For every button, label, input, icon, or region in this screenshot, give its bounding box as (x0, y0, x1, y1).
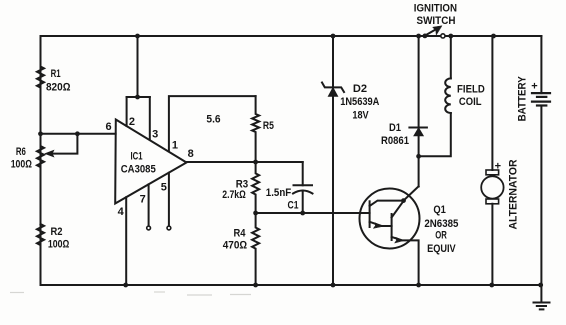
svg-text:100Ω: 100Ω (48, 239, 70, 251)
svg-text:7: 7 (140, 194, 146, 206)
node dot pin4 bottom rail (123, 283, 128, 288)
transistor Q1 emitter b arrowhead (395, 237, 404, 243)
resistor R2 (37, 224, 44, 285)
svg-text:+: + (495, 161, 501, 173)
svg-text:Q1: Q1 (433, 204, 446, 216)
ignition switch pole dot (423, 34, 428, 39)
svg-text:5: 5 (161, 182, 167, 194)
svg-text:1.5nF: 1.5nF (266, 187, 292, 199)
op-amp pin 4 wire (125, 197, 127, 285)
ignition switch lever (425, 29, 436, 35)
svg-text:1: 1 (172, 140, 178, 152)
wire pin 2 (126, 97, 128, 126)
node dot D2 bottom rail (331, 283, 336, 288)
node dot alternator bottom rail (489, 283, 494, 288)
svg-text:R6: R6 (16, 146, 26, 158)
svg-text:D1: D1 (389, 122, 401, 134)
node dot junction left rail R6 (38, 131, 43, 136)
alternator lead top (491, 36, 493, 170)
transistor Q1 collector b (392, 201, 404, 218)
node dot top rail riser (135, 34, 140, 39)
zener D2 cathode bar with hooks (322, 83, 344, 93)
wire output pin 8 (187, 161, 303, 163)
R6 wiper arm (52, 134, 77, 154)
node dot D1 top rail (416, 34, 421, 39)
svg-text:COIL: COIL (459, 96, 482, 108)
wire pin 6 input (41, 133, 116, 135)
battery plate short (537, 96, 546, 98)
node dot R3 R4 junction (253, 211, 258, 216)
node dot R4 bottom rail (253, 283, 258, 288)
transistor Q1 collector a (370, 201, 404, 206)
svg-text:2: 2 (129, 116, 135, 128)
wire pin2-pin3 tie bar (127, 96, 150, 98)
op-amp U1 IC1 triangle (115, 120, 186, 204)
capacitor C1 top lead (302, 162, 304, 185)
svg-text:18V: 18V (352, 110, 369, 122)
node dot emitter bottom rail (416, 283, 421, 288)
svg-text:+: + (531, 81, 537, 93)
wire riser pins 2,3 to top rail (137, 36, 139, 97)
wire battery right rail (540, 36, 542, 285)
wire left rail (40, 36, 42, 285)
wire top rail (41, 35, 542, 37)
capacitor C1 curved plate (293, 191, 313, 194)
svg-text:470Ω: 470Ω (223, 239, 248, 251)
transistor Q1 base bar b (391, 214, 393, 240)
svg-text:R0861: R0861 (381, 135, 409, 147)
alternator brush top (486, 170, 499, 175)
node dot Q1 collector tie (401, 198, 406, 203)
wire bottom rail (41, 284, 542, 286)
capacitor C1 bottom lead (302, 191, 304, 213)
inductor field coil top lead (450, 36, 452, 78)
svg-text:6: 6 (105, 121, 111, 133)
capacitor C1 top plate (294, 184, 313, 186)
svg-text:EQUIV: EQUIV (427, 243, 456, 255)
resistor R1 (37, 36, 44, 134)
inductor field coil loops (445, 78, 451, 113)
ground stub (540, 285, 542, 303)
svg-text:820Ω: 820Ω (46, 81, 71, 93)
svg-text:5.6: 5.6 (206, 114, 220, 126)
battery plate short bottom (537, 104, 546, 106)
battery plate long top (532, 92, 550, 94)
node dot alternator top rail (491, 34, 496, 39)
transistor Q1 emitter a arrowhead (373, 223, 382, 229)
ignition switch lever arrowhead (433, 26, 442, 35)
alternator lead bottom (491, 204, 493, 285)
svg-text:2.7kΩ: 2.7kΩ (222, 189, 246, 201)
alternator brush bottom (486, 199, 499, 204)
op-amp pin 5 open terminal (167, 226, 171, 230)
transistor Q1 circle (360, 189, 420, 249)
wire pin 3 (149, 97, 151, 140)
op-amp pin 7 wire (148, 184, 150, 226)
wire base line to Q1 (256, 212, 370, 214)
node dot D2 top rail (331, 34, 336, 39)
diode D1 cathode bar (409, 127, 427, 129)
battery plate long bottom (532, 100, 550, 102)
inductor field coil bottom lead (419, 113, 451, 156)
node dot D1 field coil junction (416, 154, 421, 159)
op-amp pin 7 open terminal (147, 226, 151, 230)
ignition switch throw contact circle (441, 34, 445, 38)
node dot field coil top rail (448, 34, 453, 39)
resistor R6 (37, 134, 44, 224)
transistor Q1 emitter b (392, 237, 419, 285)
svg-text:IGNITION: IGNITION (414, 3, 457, 15)
transistor Q1 base bar a (369, 201, 371, 227)
node dot C1 bottom (300, 211, 305, 216)
svg-text:ALTERNATOR: ALTERNATOR (507, 159, 519, 229)
svg-text:C1: C1 (288, 199, 299, 211)
scan smudge artifacts (10, 292, 251, 295)
svg-text:R1: R1 (51, 68, 61, 80)
svg-text:1N5639A: 1N5639A (340, 96, 379, 108)
svg-text:R5: R5 (263, 120, 274, 132)
R6 wiper arrowhead (46, 151, 54, 157)
transistor Q1 collector exit to D1 line (404, 186, 419, 200)
svg-text:3: 3 (152, 129, 158, 141)
svg-text:BATTERY: BATTERY (516, 76, 528, 122)
op-amp pin 5 wire (168, 173, 170, 226)
resistor R4 (252, 213, 259, 285)
zener D2 anode triangle (328, 88, 337, 96)
svg-text:IC1: IC1 (131, 150, 143, 162)
resistor R3 (252, 162, 259, 213)
ground bar 1 (534, 302, 550, 304)
node dot output R5 junction (253, 160, 258, 165)
svg-text:2N6385: 2N6385 (424, 218, 458, 230)
svg-text:R2: R2 (51, 226, 63, 238)
svg-text:OR: OR (435, 229, 447, 241)
svg-text:4: 4 (118, 206, 125, 218)
resistor R5 (252, 96, 259, 162)
transistor Q1 emitter a (370, 222, 392, 226)
svg-text:100Ω: 100Ω (11, 159, 33, 171)
svg-text:SWITCH: SWITCH (417, 15, 456, 27)
svg-text:D2: D2 (353, 83, 367, 95)
zener D2 body line (332, 36, 334, 285)
svg-text:CA3085: CA3085 (121, 163, 156, 175)
node dot wiper junction (75, 131, 80, 136)
svg-text:R4: R4 (234, 227, 247, 239)
node dot battery bottom rail (538, 283, 543, 288)
node dot tie bar (135, 95, 140, 100)
diode D1 line from top rail (418, 36, 420, 187)
diode D1 anode triangle (414, 128, 423, 136)
ground bar 2 (537, 305, 546, 307)
svg-text:8: 8 (188, 148, 194, 160)
svg-text:FIELD: FIELD (457, 84, 485, 96)
wire pin 1 feedback loop to R5 top (169, 96, 256, 151)
ground bar 3 (540, 308, 544, 310)
alternator rotor circle (481, 176, 503, 198)
